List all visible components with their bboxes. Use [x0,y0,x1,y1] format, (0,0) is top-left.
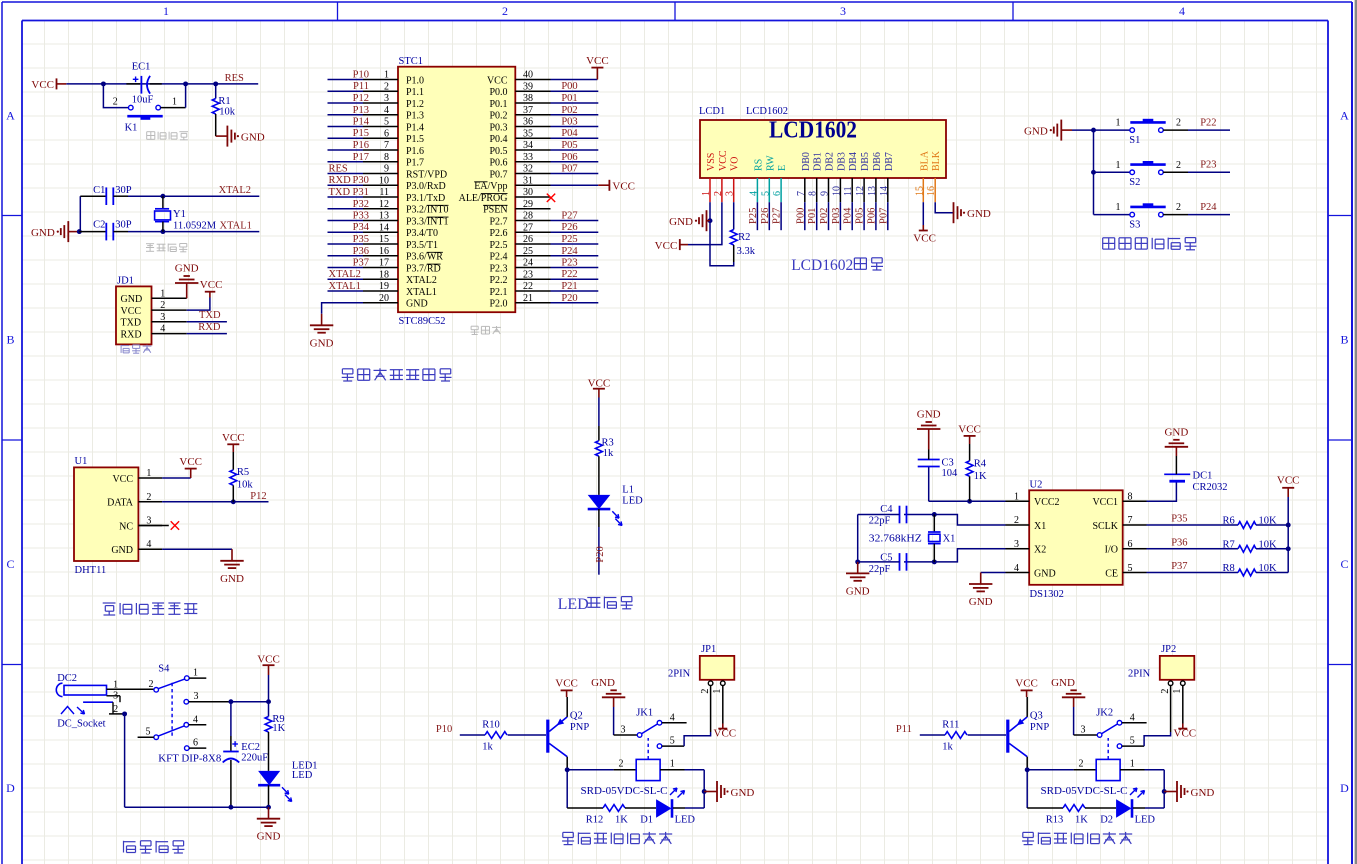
svg-text:104: 104 [942,468,959,479]
svg-text:P2.1: P2.1 [489,287,507,298]
svg-text:DB4: DB4 [848,152,859,171]
svg-text:VCC: VCC [958,423,981,435]
svg-text:35: 35 [523,128,533,139]
svg-text:DC2: DC2 [57,673,77,684]
svg-text:13: 13 [867,186,878,196]
svg-text:STC1: STC1 [399,56,424,67]
svg-text:4: 4 [193,714,198,725]
svg-text:C4: C4 [880,504,893,515]
svg-text:B: B [1340,333,1348,347]
svg-text:P12: P12 [250,491,266,502]
svg-text:GND: GND [310,337,334,349]
svg-text:P07: P07 [878,208,889,224]
svg-text:15: 15 [914,186,925,196]
svg-text:P02: P02 [819,208,830,224]
svg-text:U1: U1 [75,456,88,467]
svg-text:P25: P25 [561,234,577,245]
svg-text:RES: RES [225,73,244,84]
svg-text:P11: P11 [896,724,912,735]
svg-text:33: 33 [523,152,533,163]
svg-text:X1: X1 [1034,521,1046,532]
svg-text:JP1: JP1 [701,644,716,655]
svg-text:P1.7: P1.7 [406,158,424,169]
svg-text:P17: P17 [353,152,369,163]
svg-text:P1.6: P1.6 [406,146,424,157]
svg-text:DHT11: DHT11 [75,565,107,576]
svg-text:6: 6 [384,128,389,139]
svg-text:3.3k: 3.3k [737,246,756,257]
svg-text:R10: R10 [482,720,500,731]
svg-text:P0.0: P0.0 [489,87,507,98]
svg-text:40: 40 [523,70,533,81]
svg-text:R8: R8 [1223,563,1235,574]
svg-text:GND: GND [1034,568,1056,579]
svg-text:P3.2/INT0: P3.2/INT0 [406,205,449,216]
svg-text:P01: P01 [807,208,818,224]
svg-text:GND: GND [220,573,244,585]
svg-text:DC_Socket: DC_Socket [57,718,105,729]
svg-text:RES: RES [329,164,348,175]
svg-text:11: 11 [379,187,389,198]
svg-text:P2.7: P2.7 [489,216,507,227]
svg-text:22: 22 [523,281,533,292]
svg-text:5: 5 [384,117,389,128]
svg-text:P01: P01 [561,93,577,104]
svg-text:P20: P20 [595,546,606,562]
svg-text:C: C [6,557,14,571]
svg-text:RXD: RXD [198,322,221,333]
svg-text:1: 1 [1116,118,1121,129]
svg-text:10k: 10k [237,479,254,490]
svg-text:RS: RS [753,159,764,171]
svg-text:VCC: VCC [112,474,133,485]
svg-text:D: D [1340,781,1349,795]
svg-text:2: 2 [713,191,724,196]
svg-text:K1: K1 [125,122,138,133]
svg-text:5: 5 [760,191,771,196]
svg-text:P00: P00 [561,81,577,92]
svg-text:SRD-05VDC-SL-C: SRD-05VDC-SL-C [1041,785,1128,797]
svg-text:39: 39 [523,82,533,93]
svg-text:P03: P03 [831,208,842,224]
svg-text:C3: C3 [942,457,954,468]
svg-text:1K: 1K [615,814,628,825]
svg-text:VSS: VSS [706,153,717,171]
svg-text:P23: P23 [561,258,577,269]
svg-text:1: 1 [670,759,675,770]
svg-text:22pF: 22pF [869,564,891,575]
svg-text:P20: P20 [561,293,577,304]
svg-text:D: D [6,781,15,795]
svg-text:S2: S2 [1129,177,1140,188]
svg-text:8: 8 [384,152,389,163]
svg-text:25: 25 [523,246,533,257]
svg-text:P15: P15 [353,128,369,139]
svg-text:5: 5 [1130,736,1135,747]
svg-text:EA/Vpp: EA/Vpp [474,181,507,192]
svg-text:VCC: VCC [913,233,936,245]
svg-text:VCC: VCC [588,377,611,389]
svg-text:3: 3 [725,191,736,196]
svg-text:5: 5 [146,727,151,738]
svg-text:P26: P26 [760,208,771,224]
svg-text:9: 9 [384,164,389,175]
svg-text:P0.6: P0.6 [489,158,507,169]
svg-text:10k: 10k [219,106,236,117]
svg-text:C: C [1340,557,1348,571]
svg-text:P13: P13 [353,105,369,116]
svg-text:4: 4 [748,191,759,196]
svg-text:1K: 1K [272,723,285,734]
svg-text:PNP: PNP [1030,722,1049,733]
svg-text:P14: P14 [353,117,370,128]
svg-text:GND: GND [31,227,55,239]
svg-text:R2: R2 [738,232,750,243]
svg-text:P3.5/T1: P3.5/T1 [406,240,438,251]
svg-text:P26: P26 [561,222,577,233]
svg-text:GND: GND [241,131,265,143]
svg-text:P3.7/RD: P3.7/RD [406,263,441,274]
svg-text:P07: P07 [561,164,577,175]
svg-text:P2.0: P2.0 [489,299,507,310]
svg-text:27: 27 [523,222,533,233]
svg-text:3: 3 [621,724,626,735]
svg-text:P25: P25 [748,208,759,224]
svg-text:P04: P04 [843,207,854,224]
svg-text:P02: P02 [561,105,577,116]
svg-text:P1.1: P1.1 [406,87,424,98]
svg-text:32.768kHZ: 32.768kHZ [869,533,922,544]
svg-text:L1: L1 [622,484,634,495]
svg-text:P24: P24 [1200,202,1217,213]
svg-text:S4: S4 [158,663,170,674]
svg-text:P04: P04 [561,128,578,139]
svg-text:1: 1 [172,97,177,108]
svg-text:P05: P05 [561,140,577,151]
svg-text:D2: D2 [1100,814,1113,825]
svg-text:4: 4 [670,712,675,723]
svg-text:DB7: DB7 [884,152,895,171]
svg-text:P10: P10 [436,724,452,735]
svg-text:8: 8 [808,191,819,196]
svg-text:12: 12 [379,199,389,210]
svg-text:P36: P36 [1171,537,1187,548]
svg-text:P06: P06 [561,152,577,163]
svg-text:U2: U2 [1030,479,1043,490]
svg-text:R11: R11 [942,720,959,731]
svg-text:E: E [777,165,788,171]
svg-text:GND: GND [591,677,615,689]
svg-text:C2: C2 [93,219,105,230]
svg-text:32: 32 [523,164,533,175]
svg-text:13: 13 [379,211,389,222]
svg-text:TXD: TXD [199,310,221,321]
svg-text:1k: 1k [482,741,493,752]
svg-text:DC1: DC1 [1193,471,1213,482]
svg-text:C1: C1 [93,185,105,196]
svg-text:1: 1 [1116,202,1121,213]
svg-text:R5: R5 [237,467,249,478]
svg-text:P3.6/WR: P3.6/WR [406,252,443,263]
svg-text:1k: 1k [942,741,953,752]
svg-text:3: 3 [1081,724,1086,735]
svg-text:P1.2: P1.2 [406,99,424,110]
svg-text:ALE/PROG: ALE/PROG [459,193,508,204]
svg-text:6: 6 [1128,539,1133,550]
svg-text:24: 24 [523,258,533,269]
svg-text:VCC: VCC [200,279,223,291]
svg-text:Y1: Y1 [173,209,186,220]
svg-text:1: 1 [384,70,389,81]
svg-text:LCD1602: LCD1602 [791,257,853,274]
svg-text:SCLK: SCLK [1092,521,1118,532]
svg-text:2: 2 [700,689,711,694]
svg-text:14: 14 [379,222,389,233]
svg-text:P0.4: P0.4 [489,134,507,145]
svg-text:18: 18 [379,269,389,280]
svg-text:KFT DIP-8X8: KFT DIP-8X8 [158,753,221,764]
svg-text:1K: 1K [974,471,987,482]
svg-text:DB5: DB5 [860,152,871,171]
svg-text:LED: LED [292,770,313,781]
svg-text:R3: R3 [602,437,614,448]
svg-text:1: 1 [1014,492,1019,503]
svg-text:JP2: JP2 [1161,644,1176,655]
svg-text:30: 30 [523,187,533,198]
svg-text:P0.7: P0.7 [489,169,507,180]
svg-text:DB0: DB0 [801,152,812,171]
svg-text:P31: P31 [353,187,369,198]
svg-text:1: 1 [1116,160,1121,171]
svg-text:VCC2: VCC2 [1034,497,1060,508]
svg-text:P23: P23 [1200,160,1216,171]
svg-text:GND: GND [1164,426,1188,438]
svg-text:VCC: VCC [121,306,142,317]
svg-text:P3.0/RxD: P3.0/RxD [406,181,446,192]
svg-text:9: 9 [820,191,831,196]
svg-text:7: 7 [384,140,389,151]
svg-text:7: 7 [1128,515,1133,526]
svg-text:2: 2 [619,759,624,770]
svg-text:14: 14 [879,186,890,196]
svg-text:P30: P30 [353,175,369,186]
svg-text:P35: P35 [1171,514,1187,525]
svg-text:P1.3: P1.3 [406,111,424,122]
svg-text:2PIN: 2PIN [1128,668,1151,679]
svg-text:21: 21 [523,293,533,304]
svg-text:LED: LED [558,596,589,613]
svg-text:10K: 10K [1259,563,1278,574]
svg-text:P0.1: P0.1 [489,99,507,110]
svg-text:3: 3 [194,691,199,702]
svg-text:VCC: VCC [612,181,635,193]
svg-text:5: 5 [1128,563,1133,574]
svg-text:LED: LED [1135,814,1156,825]
svg-text:DS1302: DS1302 [1030,589,1064,600]
svg-text:P37: P37 [353,258,369,269]
svg-text:X2: X2 [1034,545,1046,556]
svg-text:2: 2 [1176,202,1181,213]
svg-text:2: 2 [384,82,389,93]
svg-text:S1: S1 [1129,135,1140,146]
svg-text:LCD1602: LCD1602 [746,106,788,117]
svg-text:P2.6: P2.6 [489,228,507,239]
svg-text:4: 4 [1014,563,1019,574]
svg-text:16: 16 [379,246,389,257]
svg-text:XTAL2: XTAL2 [406,275,437,286]
svg-text:LCD1: LCD1 [699,106,725,117]
svg-text:GND: GND [121,294,143,305]
svg-text:R6: R6 [1223,516,1235,527]
svg-text:3: 3 [384,93,389,104]
svg-text:4: 4 [1130,712,1135,723]
svg-text:C5: C5 [880,553,892,564]
svg-text:P3.4/T0: P3.4/T0 [406,228,438,239]
svg-text:VCC: VCC [714,727,737,739]
svg-text:11: 11 [843,186,854,196]
svg-text:VCC: VCC [1015,677,1038,689]
svg-text:GND: GND [175,263,199,275]
svg-text:P37: P37 [1171,561,1187,572]
svg-text:P3.1/TxD: P3.1/TxD [406,193,445,204]
svg-text:19: 19 [379,281,389,292]
svg-text:R12: R12 [586,814,604,825]
svg-text:RXD: RXD [329,175,352,186]
svg-text:4: 4 [1179,4,1185,18]
svg-text:29: 29 [523,199,533,210]
svg-text:P22: P22 [1200,117,1216,128]
svg-text:37: 37 [523,105,533,116]
svg-text:TXD: TXD [329,187,351,198]
svg-text:VCC: VCC [586,55,609,67]
svg-text:GND: GND [1051,677,1075,689]
svg-text:1: 1 [1172,689,1183,694]
svg-text:DB6: DB6 [872,152,883,171]
svg-text:P11: P11 [353,81,369,92]
svg-text:GND: GND [111,545,133,556]
svg-text:P05: P05 [855,208,866,224]
svg-text:22pF: 22pF [869,515,891,526]
svg-text:P16: P16 [353,140,369,151]
svg-text:BLK: BLK [931,150,942,171]
svg-text:2PIN: 2PIN [668,668,691,679]
svg-text:1: 1 [1130,759,1135,770]
svg-text:D1: D1 [640,814,653,825]
svg-text:LCD1602: LCD1602 [769,118,857,144]
svg-text:STC89C52: STC89C52 [399,316,446,327]
svg-text:2: 2 [113,97,118,108]
svg-text:VCC: VCC [31,79,54,91]
svg-text:XTAL1: XTAL1 [220,220,252,231]
svg-text:B: B [6,333,14,347]
svg-text:16: 16 [926,186,937,196]
svg-text:BLA: BLA [919,150,930,171]
svg-text:1: 1 [701,191,712,196]
svg-text:VCC: VCC [487,75,508,86]
svg-text:1: 1 [712,689,723,694]
svg-text:PNP: PNP [570,722,589,733]
svg-text:JD1: JD1 [117,275,134,286]
svg-text:P0.2: P0.2 [489,111,507,122]
svg-text:CR2032: CR2032 [1193,482,1228,493]
svg-text:1: 1 [193,668,198,679]
svg-text:XTAL1: XTAL1 [406,287,437,298]
svg-text:LED: LED [675,814,696,825]
svg-text:P24: P24 [561,246,578,257]
svg-text:P35: P35 [353,234,369,245]
svg-text:38: 38 [523,93,533,104]
svg-text:8: 8 [1128,492,1133,503]
svg-text:VCC: VCC [555,677,578,689]
svg-text:NC: NC [119,521,133,532]
svg-text:VCC: VCC [718,150,729,171]
svg-text:PSEN: PSEN [483,205,507,216]
svg-text:GND: GND [917,409,941,421]
svg-text:P27: P27 [561,211,577,222]
svg-text:VCC: VCC [179,456,202,468]
svg-text:12: 12 [855,186,866,196]
svg-text:10: 10 [831,186,842,196]
svg-text:CE: CE [1105,568,1118,579]
svg-text:1: 1 [163,4,169,18]
svg-text:GND: GND [846,585,870,597]
svg-text:A: A [6,109,15,123]
svg-text:S3: S3 [1129,219,1140,230]
svg-text:LED: LED [622,495,643,506]
svg-text:P10: P10 [353,70,369,81]
svg-text:2: 2 [1176,118,1181,129]
svg-text:P1.0: P1.0 [406,75,424,86]
svg-text:10: 10 [379,175,389,186]
svg-text:P21: P21 [561,281,577,292]
svg-text:P03: P03 [561,117,577,128]
svg-text:17: 17 [379,258,389,269]
svg-text:R13: R13 [1046,814,1064,825]
svg-text:GND: GND [967,208,991,220]
svg-text:JK2: JK2 [1096,707,1113,718]
svg-text:P3.3/INT1: P3.3/INT1 [406,216,449,227]
svg-text:2: 2 [149,679,154,690]
svg-text:2: 2 [1160,689,1171,694]
svg-text:VCC: VCC [655,240,678,252]
svg-text:P06: P06 [866,208,877,224]
svg-text:10uF: 10uF [132,95,154,106]
svg-text:DB2: DB2 [825,152,836,171]
svg-text:6: 6 [772,191,783,196]
svg-text:3: 3 [1014,539,1019,550]
svg-text:26: 26 [523,234,533,245]
svg-text:RST/VPD: RST/VPD [406,169,447,180]
svg-text:GND: GND [731,787,755,799]
svg-text:VCC: VCC [1277,474,1300,486]
svg-text:P2.5: P2.5 [489,240,507,251]
svg-text:P36: P36 [353,246,369,257]
svg-text:3: 3 [840,4,846,18]
svg-text:GND: GND [669,216,693,228]
svg-text:P27: P27 [772,208,783,224]
svg-text:GND: GND [969,596,993,608]
svg-text:A: A [1340,109,1349,123]
svg-text:I/O: I/O [1105,545,1118,556]
svg-text:GND: GND [406,299,428,310]
svg-text:2: 2 [502,4,508,18]
svg-text:GND: GND [1191,787,1215,799]
svg-text:P1.5: P1.5 [406,134,424,145]
svg-text:P00: P00 [795,208,806,224]
svg-text:XTAL2: XTAL2 [329,269,361,280]
svg-text:2: 2 [1176,160,1181,171]
svg-text:31: 31 [523,175,533,186]
